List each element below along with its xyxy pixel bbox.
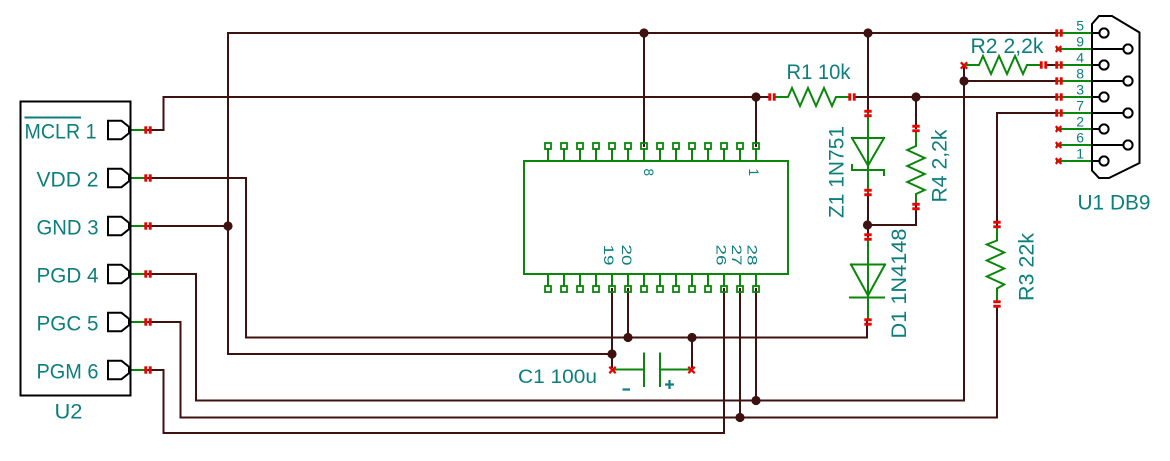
svg-text:VDD 2: VDD 2 — [37, 169, 99, 192]
svg-text:7: 7 — [1076, 98, 1084, 114]
svg-text:27: 27 — [729, 245, 744, 266]
svg-text:U2: U2 — [55, 401, 83, 424]
svg-text:20: 20 — [619, 245, 634, 266]
svg-text:D1 1N4148: D1 1N4148 — [888, 229, 911, 339]
svg-text:C1 100u: C1 100u — [518, 367, 597, 388]
svg-text:28: 28 — [745, 245, 760, 266]
svg-text:PGM 6: PGM 6 — [37, 361, 99, 384]
svg-text:R1 10k: R1 10k — [787, 61, 851, 84]
svg-text:5: 5 — [1076, 18, 1084, 34]
svg-text:U1 DB9: U1 DB9 — [1078, 192, 1151, 215]
svg-text:3: 3 — [1076, 82, 1084, 98]
svg-text:PGC 5: PGC 5 — [37, 313, 99, 336]
svg-text:R2 2,2k: R2 2,2k — [971, 35, 1045, 58]
svg-text:6: 6 — [1076, 130, 1084, 146]
svg-text:MCLR 1: MCLR 1 — [25, 121, 97, 144]
svg-text:8: 8 — [641, 169, 656, 177]
svg-text:PGD 4: PGD 4 — [37, 265, 99, 288]
svg-text:Z1 1N751: Z1 1N751 — [826, 126, 849, 218]
svg-text:R3 22k: R3 22k — [1016, 232, 1039, 301]
svg-text:GND 3: GND 3 — [37, 217, 99, 240]
svg-text:R4 2,2k: R4 2,2k — [929, 129, 952, 203]
svg-text:4: 4 — [1076, 50, 1084, 66]
svg-text:1: 1 — [1076, 146, 1084, 162]
svg-text:1: 1 — [746, 169, 761, 177]
svg-text:9: 9 — [1076, 34, 1084, 50]
svg-text:19: 19 — [601, 245, 616, 266]
svg-text:26: 26 — [714, 245, 729, 266]
svg-text:8: 8 — [1076, 66, 1084, 82]
svg-text:2: 2 — [1076, 114, 1084, 130]
